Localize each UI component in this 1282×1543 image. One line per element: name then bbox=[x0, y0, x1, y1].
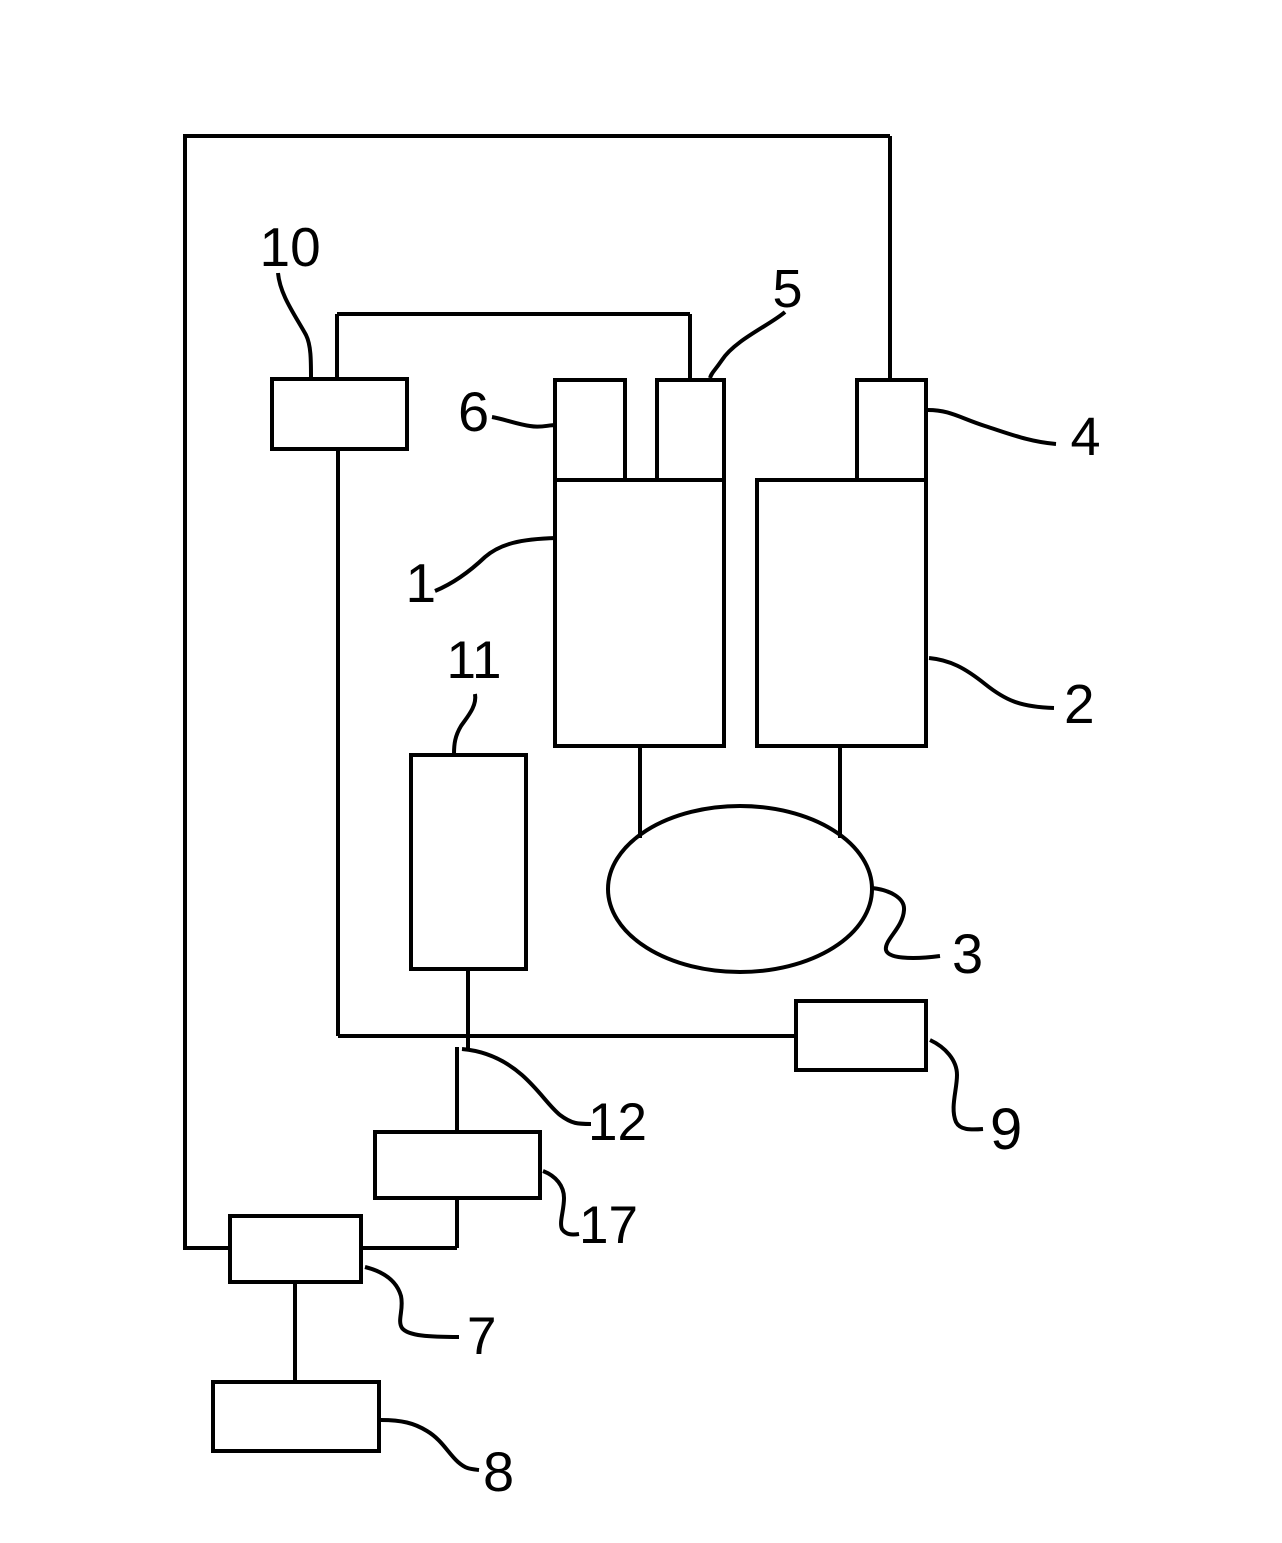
box 2 bbox=[757, 480, 926, 746]
svg-text:7: 7 bbox=[467, 1307, 496, 1366]
wire bottom bus horizontal to box 9 bbox=[338, 1034, 796, 1038]
svg-text:10: 10 bbox=[260, 216, 321, 278]
box 4 bbox=[857, 380, 926, 480]
leader for label 5 bbox=[710, 312, 785, 378]
leader for label 2 bbox=[929, 658, 1054, 708]
wire from bus down to box 17 bbox=[455, 1047, 459, 1132]
wire below box 17 bbox=[455, 1198, 459, 1248]
box 7 bbox=[230, 1216, 361, 1282]
box 17 bbox=[375, 1132, 540, 1198]
svg-text:5: 5 bbox=[773, 259, 803, 319]
wire below box 11 crossing bus bbox=[466, 969, 470, 1051]
wire from box 10 to box 5 horizontal bbox=[337, 312, 690, 316]
wire down to box 5 top bbox=[688, 314, 692, 380]
leader for label 7 bbox=[365, 1267, 459, 1337]
leader for label 3 bbox=[872, 888, 940, 958]
box 11 bbox=[411, 755, 526, 969]
leader for label 4 bbox=[928, 410, 1056, 444]
leader for label 10 bbox=[278, 273, 311, 378]
wire outer loop bottom into box 7 bbox=[183, 1246, 230, 1250]
leader for label 17 bbox=[543, 1171, 579, 1234]
box 9 bbox=[796, 1001, 926, 1070]
ellipse 3 bbox=[608, 806, 872, 972]
svg-text:4: 4 bbox=[1071, 407, 1101, 467]
wire box 1 down to ellipse 3 bbox=[638, 746, 642, 838]
leader for label 9 bbox=[930, 1040, 983, 1129]
svg-text:11: 11 bbox=[447, 631, 502, 690]
svg-text:12: 12 bbox=[588, 1093, 647, 1152]
wire down to box 10 top bbox=[335, 314, 339, 380]
box 8 bbox=[213, 1382, 379, 1451]
leader for label 12 bbox=[462, 1049, 591, 1124]
svg-text:1: 1 bbox=[406, 552, 437, 614]
leader for label 6 bbox=[492, 417, 556, 427]
wire outer loop left vertical bbox=[183, 134, 187, 1250]
leader for label 1 bbox=[435, 538, 556, 591]
wire from box 7 to riser bbox=[361, 1246, 457, 1250]
wire outer loop top horizontal bbox=[183, 134, 890, 138]
box 5 bbox=[657, 380, 724, 480]
wire from box 7 down to box 8 bbox=[293, 1282, 297, 1382]
wire below box 10 down to bottom bus bbox=[336, 449, 340, 1036]
svg-text:2: 2 bbox=[1064, 673, 1095, 735]
box 6 bbox=[555, 380, 625, 480]
wire box 2 down to ellipse 3 bbox=[838, 746, 842, 838]
svg-text:17: 17 bbox=[579, 1196, 638, 1255]
svg-text:3: 3 bbox=[952, 922, 983, 985]
leader for label 8 bbox=[380, 1420, 479, 1470]
box 10 bbox=[272, 379, 407, 449]
leader for label 11 bbox=[454, 694, 475, 754]
wire outer loop right vertical into box 4 bbox=[888, 136, 892, 380]
svg-text:8: 8 bbox=[483, 1440, 514, 1503]
box 1 bbox=[555, 480, 724, 746]
svg-text:6: 6 bbox=[458, 380, 489, 443]
svg-text:9: 9 bbox=[990, 1097, 1022, 1162]
